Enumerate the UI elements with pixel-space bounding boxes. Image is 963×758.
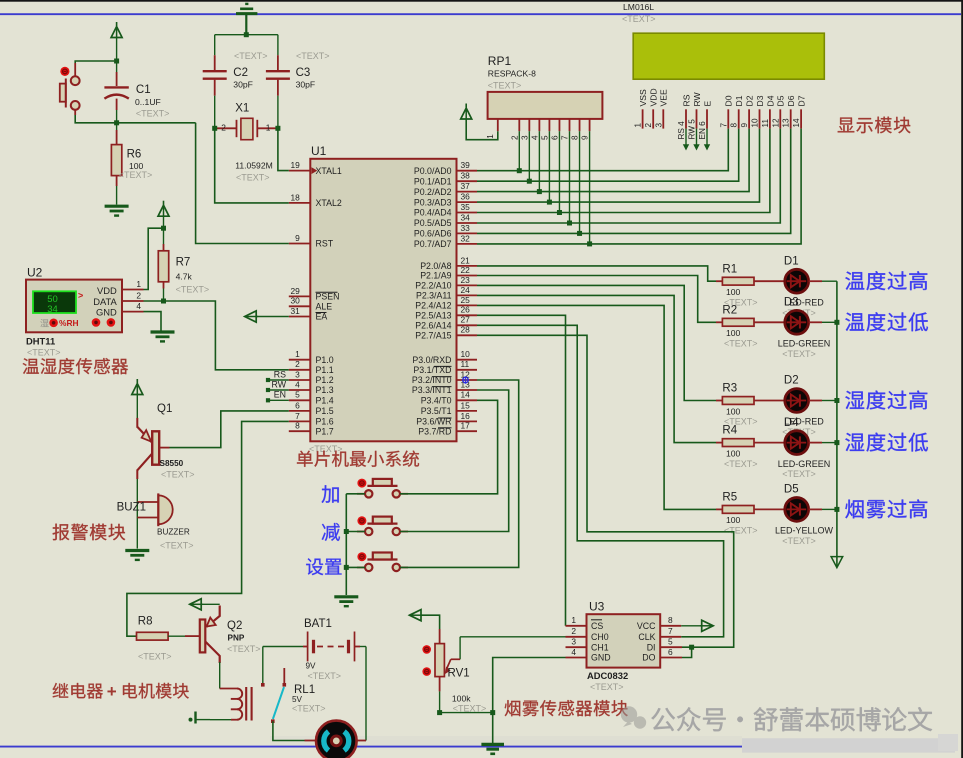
svg-text:Q1: Q1 [157,403,172,415]
svg-text:R8: R8 [138,615,153,627]
svg-text:RP1: RP1 [488,54,512,68]
svg-text:XTAL1: XTAL1 [316,166,342,176]
resistor R1 [716,263,785,307]
ground bottom center [481,744,504,753]
relay RL1 coil [189,684,326,723]
svg-text:3: 3 [654,123,663,128]
ground top (inverted) above C2/C3 [236,4,257,35]
svg-text:11: 11 [461,359,470,369]
LCD RS RW E net terminal arrows [683,129,710,151]
watermark wechat icon [621,706,646,728]
svg-text:P0.6/AD6: P0.6/AD6 [414,229,452,239]
key button 设置 [357,552,408,571]
wire P2.1 to R2 [477,276,716,323]
svg-text:33: 33 [461,223,471,233]
svg-text:8: 8 [571,135,580,140]
svg-text:RS 4: RS 4 [677,121,686,140]
svg-text:6: 6 [550,135,559,140]
svg-text:EA: EA [316,312,328,322]
svg-text:12: 12 [771,118,780,128]
svg-text:R5: R5 [722,492,737,504]
svg-text:<TEXT>: <TEXT> [590,682,624,692]
wire U3 GND to ground [493,658,566,744]
svg-text:39: 39 [461,160,471,170]
label 温度过低 [845,313,864,331]
wire button top to VCC node [75,61,114,76]
svg-text:3: 3 [295,369,300,379]
svg-text:<TEXT>: <TEXT> [488,81,522,91]
svg-text:27: 27 [461,315,471,325]
svg-text:<TEXT>: <TEXT> [160,541,194,551]
module label 温湿度传感器 [23,358,39,374]
svg-text:P0.3/AD3: P0.3/AD3 [414,197,452,207]
svg-text:R3: R3 [722,383,737,395]
svg-text:ADC0832: ADC0832 [587,670,628,681]
svg-text:7: 7 [295,411,300,421]
wire 加 to P3.4 [400,400,498,494]
node junction DATA/R7 [161,299,166,304]
module label 继电器+电机模块 [53,683,69,698]
wire P2.2 to R3 [477,285,716,400]
svg-text:C1: C1 [136,84,151,96]
crystal X1 [215,102,278,182]
svg-text:36: 36 [461,192,471,202]
svg-text:13: 13 [782,118,791,128]
wire EA arrow to U1 [256,316,289,318]
svg-text:37: 37 [461,181,471,191]
wire U2 DATA to P1.1 with R7 tap [144,301,289,370]
wire RST net vertical to U1 [196,123,289,244]
svg-text:CLK: CLK [638,632,655,642]
svg-text:CH1: CH1 [591,642,609,652]
svg-text:1: 1 [266,123,271,133]
svg-text:P2.2/A10: P2.2/A10 [415,281,451,291]
key button 减 [357,516,408,535]
wire 减 to P3.3 [400,390,509,532]
svg-text:PSEN: PSEN [316,292,340,302]
ground below R6 [105,205,129,208]
svg-text:E: E [702,101,712,107]
svg-text:4: 4 [295,379,300,389]
U1 left pin stubs, numbers and labels [289,160,342,436]
svg-text:14: 14 [792,118,801,128]
wire P2.6 to U3 CLK [477,325,724,637]
net label RW to P1.3 [266,379,289,392]
svg-text:34: 34 [47,304,58,315]
svg-text:VDD: VDD [97,285,117,296]
svg-text:VDD: VDD [649,88,659,106]
node junction X1 left [212,126,217,131]
svg-text:GND: GND [96,306,117,317]
svg-text:10: 10 [751,118,760,128]
svg-text:D5: D5 [776,95,786,106]
svg-text:24: 24 [461,285,471,295]
svg-text:+: + [107,682,117,701]
svg-text:4: 4 [136,301,141,311]
svg-text:2: 2 [644,123,653,128]
svg-text:D7: D7 [797,95,807,106]
ground below U2 [151,330,175,333]
wire Q2 collector to relay coil [219,662,221,689]
U2 pin stubs and numbers [122,279,144,312]
svg-text:25: 25 [461,295,471,305]
svg-text:D4: D4 [784,417,799,429]
svg-text:5: 5 [295,390,300,400]
potentiometer RV1 [422,629,486,713]
label 湿度过高 [845,391,864,409]
RP1 pin 1 stub and VCC power arrow [461,104,498,140]
svg-text:P2.1/A9: P2.1/A9 [420,271,451,281]
svg-text:1: 1 [634,123,643,128]
resistor R2 [716,304,785,348]
svg-text:P2.0/A8: P2.0/A8 [420,261,451,271]
svg-text:CS: CS [591,621,603,631]
svg-text:VEE: VEE [659,89,669,106]
svg-text:7: 7 [668,626,673,636]
wire X1 right to XTAL1 [278,128,289,170]
svg-text:16: 16 [461,411,471,421]
svg-text:17: 17 [461,421,471,431]
svg-text:9: 9 [740,123,749,128]
svg-text:ALE: ALE [316,302,333,312]
module label 单片机最小系统 [297,451,313,467]
svg-text:R1: R1 [722,263,737,275]
svg-text:BAT1: BAT1 [304,618,332,630]
net label RS to P1.2 [266,369,289,382]
svg-text:D0: D0 [724,95,734,106]
svg-text:<TEXT>: <TEXT> [27,347,61,357]
wire X1 left to XTAL2 [215,128,289,203]
svg-text:RV1: RV1 [448,667,470,679]
svg-text:100: 100 [726,406,741,416]
node junction RV1 bottom [437,710,442,715]
wire P2.0 to R1 [477,266,716,281]
svg-text:<TEXT>: <TEXT> [622,14,656,24]
svg-text:2: 2 [510,135,519,140]
svg-text:U1: U1 [311,144,327,158]
svg-text:100: 100 [726,448,741,458]
svg-text:<TEXT>: <TEXT> [161,470,195,480]
svg-text:19: 19 [290,160,300,170]
svg-text:RW: RW [692,91,702,106]
top black edge [0,0,963,2]
svg-text:1: 1 [571,615,576,625]
svg-text:RS: RS [681,94,691,106]
svg-text:P1.1: P1.1 [316,365,334,375]
svg-text:D2: D2 [784,375,799,387]
svg-text:DHT11: DHT11 [26,336,55,347]
LED D2 LED-RED [782,375,837,437]
svg-text:9: 9 [295,233,300,243]
svg-text:RESPACK-8: RESPACK-8 [488,68,536,78]
svg-text:5: 5 [668,637,673,647]
svg-text:P0.4/AD4: P0.4/AD4 [414,208,452,218]
svg-text:D1: D1 [734,95,744,106]
node junction VCC/button/C1 [114,59,119,64]
wire button bottom to RST net [75,110,195,123]
svg-text:P1.2: P1.2 [316,375,334,385]
svg-text:<TEXT>: <TEXT> [782,349,816,359]
svg-text:28: 28 [461,325,471,335]
svg-text:4: 4 [530,135,539,140]
resistor R4 [716,425,785,469]
svg-text:C3: C3 [296,67,311,79]
svg-text:<TEXT>: <TEXT> [724,526,758,536]
adc U3 ADC0832 body [587,600,661,692]
svg-text:50: 50 [47,294,58,305]
svg-text:38: 38 [461,171,471,181]
resistor pack RP1 [488,54,603,119]
svg-text:LED-GREEN: LED-GREEN [778,459,831,469]
svg-text:BUZ1: BUZ1 [117,501,146,513]
svg-text:DATA: DATA [93,296,117,307]
node junction X1 right [275,126,280,131]
svg-text:D4: D4 [765,95,775,106]
wire C2 top to C3 top [215,34,278,36]
svg-text:2: 2 [295,359,300,369]
label 温度过高 [845,272,864,290]
svg-text:18: 18 [290,192,300,202]
svg-text:21: 21 [461,255,471,265]
svg-text:GND: GND [591,653,611,663]
svg-text:X1: X1 [235,102,249,114]
LED D3 LED-GREEN [778,297,837,359]
svg-text:D1: D1 [784,255,799,267]
svg-text:RS: RS [274,369,286,379]
svg-text:R6: R6 [127,149,142,161]
svg-text:6: 6 [295,400,300,410]
svg-text:26: 26 [461,305,471,315]
reset push button [60,67,80,110]
svg-text:8: 8 [668,615,673,625]
svg-text:RW 5: RW 5 [688,119,697,140]
wire relay blade to motor [273,721,305,740]
svg-text:D5: D5 [784,484,799,496]
svg-text:23: 23 [461,275,471,285]
svg-text:2: 2 [136,291,141,301]
svg-text:EN 6: EN 6 [698,121,707,140]
svg-text:9: 9 [581,135,590,140]
svg-text:P0.1/AD1: P0.1/AD1 [414,176,452,186]
svg-text:3: 3 [520,135,529,140]
svg-text:EN: EN [274,390,286,400]
svg-text:VCC: VCC [637,621,656,631]
watermark band gray [742,738,955,752]
svg-text:P1.7: P1.7 [316,426,334,436]
svg-text:<TEXT>: <TEXT> [227,644,261,654]
wire P2.4 to R5 [477,305,716,509]
svg-text:100: 100 [726,287,741,297]
svg-text:4.7k: 4.7k [176,271,193,281]
svg-text:P3.5/T1: P3.5/T1 [421,406,452,416]
svg-text:<TEXT>: <TEXT> [782,469,816,479]
svg-text:P2.3/A11: P2.3/A11 [416,291,452,301]
wire U2 GND down [144,312,162,331]
svg-text:BUZZER: BUZZER [157,527,190,536]
svg-text:RST: RST [316,239,334,249]
svg-text:14: 14 [461,390,471,400]
svg-text:LM016L: LM016L [623,2,654,12]
svg-text:D2: D2 [745,95,755,106]
buzzer BUZ1 [117,493,194,550]
node junction LED bus [834,320,839,325]
svg-text:1: 1 [486,134,495,139]
svg-text:<TEXT>: <TEXT> [724,339,758,349]
svg-text:32: 32 [461,233,471,243]
svg-text:2: 2 [571,626,576,636]
svg-text:100k: 100k [452,694,471,704]
wire P1.6 to R8 [127,421,289,636]
svg-text:RW: RW [272,379,287,389]
RP1 pins 2-9 to P0 bus [510,119,592,246]
svg-text:DI: DI [647,642,656,652]
LED D4 LED-GREEN [778,417,837,479]
node junction C1/R6/RST [114,120,119,125]
wire arrow to Q2 emitter [201,603,219,605]
svg-text:P1.5: P1.5 [316,406,334,416]
svg-text:%RH: %RH [59,318,79,328]
svg-text:8: 8 [730,123,739,128]
power arrow top-left VCC [116,22,118,26]
resistor R8 [137,615,186,661]
svg-text:9V: 9V [306,661,317,670]
module label 显示模块 [838,118,855,133]
transistor Q1 S8550 [137,403,194,479]
svg-text:8: 8 [295,421,300,431]
U3 VCC power arrow [681,620,713,631]
svg-text:30: 30 [290,296,300,306]
microcontroller U1 body [310,144,456,441]
svg-text:U2: U2 [27,265,43,279]
svg-text:LED-YELLOW: LED-YELLOW [775,526,834,536]
svg-text:<TEXT>: <TEXT> [724,459,758,469]
svg-text:<TEXT>: <TEXT> [292,704,326,714]
resistor R7 [158,228,209,301]
svg-text:U3: U3 [589,600,605,614]
right black edge [961,0,963,758]
label 湿度过低 [845,433,864,451]
wire battery left to relay contact [262,647,264,684]
EA power arrow [245,311,257,322]
blue border bottom line [0,746,958,748]
net label EN to P1.4 [266,390,289,403]
U1 right pin stubs, numbers and labels [412,160,477,436]
wire 设置 to P3.2 [400,380,519,567]
svg-text:30pF: 30pF [296,79,316,89]
blue border top line [0,13,961,15]
svg-text:XTAL2: XTAL2 [316,198,342,208]
svg-text:6: 6 [668,647,673,657]
svg-text:22: 22 [461,265,471,275]
svg-text:29: 29 [290,286,300,296]
sensor U2 DHT11 body [26,265,122,357]
power arrow left of RV1 [410,610,422,621]
svg-text:P0.7/AD7: P0.7/AD7 [414,239,452,249]
svg-text:1: 1 [295,349,300,359]
svg-text:Q2: Q2 [227,620,242,632]
svg-text:D6: D6 [786,95,796,106]
svg-text:<TEXT>: <TEXT> [234,51,268,61]
svg-text:P1.3: P1.3 [316,385,334,395]
power arrow left of Q2 emitter [190,599,202,610]
wire U2 VDD to power arrow [144,228,164,289]
svg-text:2: 2 [221,123,226,133]
wire battery right down to motor [365,647,367,741]
wire arrow to RV1 top [421,615,440,629]
module label 烟雾传感器模块 [505,700,521,716]
capacitor C3 [266,35,330,129]
svg-text:P0.2/AD2: P0.2/AD2 [414,187,452,197]
svg-text:100: 100 [726,328,741,338]
watermark text 公众号·舒蕾本硕博论文 [651,707,932,731]
svg-text:<TEXT>: <TEXT> [782,536,816,546]
battery BAT1 [263,618,366,681]
svg-text:R2: R2 [722,304,737,316]
wire VCC arrow to C1 node [116,38,118,62]
svg-text:PNP: PNP [228,634,245,643]
LCD LM016L screen [633,33,824,79]
svg-text:P3.4/T0: P3.4/T0 [421,396,452,406]
transistor Q2 PNP [185,606,261,664]
U3 pin stubs and numbers [566,615,683,657]
ground arrow below LED bus [831,557,843,568]
svg-text:7: 7 [719,123,728,128]
svg-text:D3: D3 [784,297,799,309]
svg-text:100: 100 [726,515,741,525]
svg-text:LED-GREEN: LED-GREEN [778,339,831,349]
svg-text:31: 31 [290,306,300,316]
svg-text:11.0592M: 11.0592M [235,161,273,171]
node junction DI/DO [689,645,694,650]
label 烟雾过高 [845,500,863,519]
wire RV1 wiper to U3 CH0 [460,636,565,638]
svg-text:<TEXT>: <TEXT> [136,108,170,118]
svg-text:P2.4/A12: P2.4/A12 [415,301,451,311]
LED D5 LED-YELLOW [775,484,837,546]
capacitor C2 [203,35,268,129]
node junction LED bus [834,440,839,445]
LED D1 LED-RED [782,255,837,317]
svg-text:P2.6/A14: P2.6/A14 [415,321,451,331]
wire LCD D0-D7 data lines to P0 bus [477,129,801,244]
svg-text:15: 15 [461,400,471,410]
power arrow for R7/VDD [163,201,165,205]
node junction LED bus [834,398,839,403]
svg-text:34: 34 [461,212,471,222]
wire buttons left common rail to ground [344,494,365,595]
svg-text:4: 4 [571,647,576,657]
relay switch contacts and blade [261,668,286,723]
svg-text:10: 10 [461,349,471,359]
svg-text:<TEXT>: <TEXT> [176,285,210,295]
node junction GND/RV1 [490,710,495,715]
motor [305,721,367,758]
key label 减 [322,523,340,541]
svg-text:<TEXT>: <TEXT> [308,671,342,681]
svg-text:C2: C2 [233,67,248,79]
wire P2.5 to U3 CS [477,315,566,626]
svg-text:R7: R7 [176,256,191,268]
svg-text:<TEXT>: <TEXT> [296,51,330,61]
svg-text:VSS: VSS [638,89,648,106]
svg-text:P1.4: P1.4 [316,396,334,406]
svg-text:11: 11 [761,119,770,128]
svg-text:P2.5/A13: P2.5/A13 [415,311,451,321]
node junction R7 top / VDD wire [161,226,166,231]
svg-text:CH0: CH0 [591,632,609,642]
capacitor C1 [104,63,169,123]
svg-text:35: 35 [461,202,471,212]
